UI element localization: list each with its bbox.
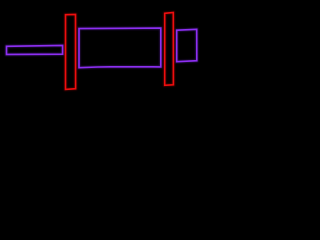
body (large middle purple outline): [79, 28, 161, 68]
shaft rod (left, purple outline): [7, 45, 63, 54]
stub (right small purple outline): [177, 29, 197, 61]
flange 1 (left red outline): [66, 14, 76, 89]
stub (right small purple outline) glow: [177, 29, 197, 61]
shaft rod (left, purple outline) glow: [7, 45, 63, 54]
flange 2 (right red outline): [165, 13, 174, 86]
flange 2 (right red outline) glow: [165, 13, 174, 86]
flange 1 (left red outline) glow: [66, 14, 76, 89]
body (large middle purple outline) glow: [79, 28, 161, 68]
